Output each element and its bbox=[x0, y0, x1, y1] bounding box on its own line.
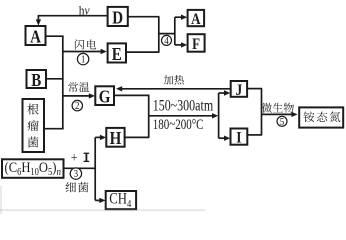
wire from cellulose box right side bbox=[64, 167, 96, 169]
wire vertical splitting to J and I bbox=[218, 93, 220, 138]
circled 1 bbox=[77, 53, 88, 66]
wire step 1 to E bbox=[63, 51, 102, 53]
wire branch to I bbox=[219, 137, 225, 139]
box A (product of step 4) bbox=[188, 10, 205, 28]
arrowhead into H bbox=[100, 135, 106, 140]
wire from J right side bbox=[247, 88, 262, 90]
wire vertical joining J and I outputs bbox=[261, 89, 263, 135]
svg-text:A: A bbox=[30, 26, 41, 47]
wire from E right side bbox=[126, 51, 159, 53]
box H bbox=[106, 128, 124, 149]
box (C6H10O5)n cellulose bbox=[2, 159, 64, 178]
circled 5 bbox=[277, 116, 287, 128]
arrowhead into CH4 bbox=[99, 198, 105, 203]
box D bbox=[108, 7, 128, 28]
circled 2 bbox=[72, 100, 82, 112]
wire from D right side bbox=[128, 16, 160, 18]
wire branch to F bbox=[175, 44, 183, 46]
circled 4 bbox=[162, 35, 172, 47]
svg-text:I: I bbox=[236, 130, 242, 147]
wire 加热 from J back to G bbox=[121, 88, 231, 90]
arrowhead into G left bbox=[89, 93, 95, 98]
arrowhead into ammonium box bbox=[291, 112, 297, 117]
svg-text:J: J bbox=[236, 82, 243, 99]
wire branch to CH4 bbox=[95, 199, 101, 201]
box G bbox=[95, 86, 114, 107]
wire elbow from G right down to synthesis junction bbox=[114, 95, 149, 137]
label 微生物 microbes bbox=[262, 103, 294, 113]
arrowhead into F bbox=[181, 42, 187, 47]
svg-text:150~300atm: 150~300atm bbox=[153, 98, 214, 115]
wire stub from B right side bbox=[46, 78, 64, 80]
arrowhead into I bbox=[224, 136, 230, 141]
wire vertical joining D and E bbox=[158, 17, 160, 52]
wire fork vertical for A and F bbox=[174, 17, 176, 45]
arrowhead at junction of J and I bbox=[212, 113, 218, 118]
svg-text:5: 5 bbox=[280, 116, 285, 128]
wire branch to H bbox=[95, 136, 102, 138]
box A (top-left) bbox=[26, 26, 46, 47]
wire vertical splitting to H and CH4 bbox=[94, 137, 96, 200]
arrowhead into J bbox=[224, 90, 230, 95]
box J bbox=[231, 81, 247, 99]
wire from I right side bbox=[247, 134, 262, 136]
box E bbox=[108, 43, 126, 64]
box 根瘤菌 (root-nodule bacteria) bbox=[23, 99, 45, 152]
svg-text:F: F bbox=[192, 36, 200, 53]
wire branch to J bbox=[219, 92, 225, 94]
wire stub from A right side bbox=[46, 35, 64, 37]
svg-text:4: 4 bbox=[164, 35, 169, 47]
wire hv from D to A bbox=[38, 16, 106, 22]
box F bbox=[188, 34, 205, 53]
box I bbox=[231, 129, 248, 147]
arrowhead into G right bbox=[116, 86, 122, 91]
wire synthesis conditions line bbox=[149, 115, 214, 117]
box B bbox=[27, 69, 47, 90]
wire branch to A bbox=[175, 16, 183, 18]
svg-text:G: G bbox=[99, 86, 111, 107]
arrowhead into top of A bbox=[36, 19, 41, 25]
svg-text:E: E bbox=[112, 43, 122, 64]
svg-text:B: B bbox=[31, 69, 41, 90]
label 常温 room temperature bbox=[68, 82, 89, 92]
circled 3 bbox=[70, 168, 81, 181]
svg-text:+: + bbox=[71, 149, 78, 165]
label 细菌 bacteria bbox=[66, 182, 89, 193]
svg-text:A: A bbox=[191, 11, 201, 28]
arrowhead into A (top right) bbox=[181, 15, 187, 20]
label 闪电 lightning bbox=[75, 39, 96, 49]
wire connector to fork of step 4 bbox=[159, 33, 176, 35]
svg-text:hν: hν bbox=[79, 3, 90, 18]
svg-text:H: H bbox=[110, 128, 122, 149]
arrowhead into E bbox=[101, 49, 107, 54]
trunk wire vertical from A down to root-nodule box bbox=[62, 36, 64, 130]
box CH4 methane bbox=[106, 191, 136, 209]
wire step 5 to ammonium box bbox=[262, 113, 293, 115]
label 加热 heating bbox=[164, 75, 184, 85]
svg-text:3: 3 bbox=[74, 169, 79, 181]
svg-text:D: D bbox=[112, 7, 123, 28]
wire stub from H right side bbox=[125, 136, 150, 138]
wire step 2 to G bbox=[63, 95, 91, 97]
box 铵态氮 (ammonium nitrogen) bbox=[299, 107, 343, 127]
svg-text:2: 2 bbox=[75, 101, 80, 113]
svg-text:180~200°C: 180~200°C bbox=[153, 115, 204, 132]
svg-text:1: 1 bbox=[81, 54, 86, 66]
wire stub from root-nodule box to trunk bbox=[44, 128, 64, 130]
